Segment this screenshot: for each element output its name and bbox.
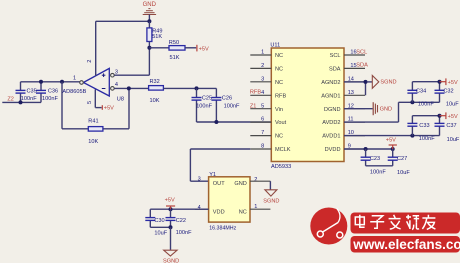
svg-text:3: 3 xyxy=(198,177,201,183)
svg-text:AVDD2: AVDD2 xyxy=(322,120,340,126)
svg-text:C32: C32 xyxy=(443,89,453,95)
svg-text:100nF: 100nF xyxy=(370,169,386,175)
svg-text:1: 1 xyxy=(73,76,76,82)
svg-text:8: 8 xyxy=(261,144,264,150)
svg-text:C27: C27 xyxy=(397,156,407,162)
svg-text:GND: GND xyxy=(380,107,392,113)
svg-text:SDA: SDA xyxy=(356,63,368,69)
svg-text:100nF: 100nF xyxy=(42,96,58,102)
svg-text:GND: GND xyxy=(143,2,157,8)
svg-text:C23: C23 xyxy=(370,156,380,162)
svg-text:100nF: 100nF xyxy=(196,103,212,109)
svg-text:+5V: +5V xyxy=(165,198,175,204)
svg-text:16.384MHz: 16.384MHz xyxy=(209,226,236,232)
svg-text:C36: C36 xyxy=(48,88,58,94)
svg-text:4: 4 xyxy=(198,205,201,211)
svg-text:4: 4 xyxy=(261,90,264,96)
svg-text:NC: NC xyxy=(275,53,283,59)
svg-text:10K: 10K xyxy=(88,139,98,145)
svg-text:51K: 51K xyxy=(152,34,162,40)
svg-text:3: 3 xyxy=(261,76,264,82)
svg-text:SGND: SGND xyxy=(380,80,396,86)
svg-text:NC: NC xyxy=(275,80,283,86)
svg-text:2: 2 xyxy=(254,177,257,183)
svg-text:U8: U8 xyxy=(117,97,124,103)
svg-text:C26: C26 xyxy=(222,95,232,101)
svg-text:2: 2 xyxy=(87,60,93,63)
svg-text:7: 7 xyxy=(261,130,264,136)
svg-text:C30: C30 xyxy=(154,218,164,224)
svg-text:R50: R50 xyxy=(169,40,179,46)
svg-text:100nF: 100nF xyxy=(418,101,434,107)
svg-text:VDD: VDD xyxy=(213,209,225,215)
svg-text:100nF: 100nF xyxy=(21,96,37,102)
svg-text:2: 2 xyxy=(261,63,264,69)
svg-text:AD5933: AD5933 xyxy=(271,164,291,170)
svg-text:NC: NC xyxy=(239,209,247,215)
svg-text:NC: NC xyxy=(275,134,283,140)
svg-text:100nF: 100nF xyxy=(224,103,240,109)
svg-text:U11: U11 xyxy=(270,42,280,48)
svg-text:10uF: 10uF xyxy=(154,231,167,237)
svg-text:+5V: +5V xyxy=(199,46,209,52)
svg-text:100nF: 100nF xyxy=(176,230,192,236)
svg-text:10uF: 10uF xyxy=(397,170,410,176)
svg-text:SCL: SCL xyxy=(330,53,341,59)
svg-text:NC: NC xyxy=(275,67,283,73)
svg-text:10uF: 10uF xyxy=(447,137,460,143)
svg-text:C25: C25 xyxy=(202,95,212,101)
svg-text:DVDD: DVDD xyxy=(325,147,341,153)
svg-text:R32: R32 xyxy=(150,79,160,85)
svg-text:+5V: +5V xyxy=(104,106,114,112)
svg-text:Y1: Y1 xyxy=(209,172,216,178)
svg-text:100nF: 100nF xyxy=(419,136,435,142)
svg-text:MCLK: MCLK xyxy=(275,147,291,153)
svg-text:SDA: SDA xyxy=(329,67,341,73)
svg-text:4: 4 xyxy=(115,82,118,88)
svg-text:13: 13 xyxy=(348,90,354,96)
svg-text:C33: C33 xyxy=(419,123,429,129)
svg-text:C37: C37 xyxy=(446,123,456,129)
svg-text:RFB: RFB xyxy=(250,89,261,95)
svg-text:SGND: SGND xyxy=(163,258,179,263)
svg-text:C34: C34 xyxy=(416,89,426,95)
svg-text:Z1: Z1 xyxy=(250,104,257,110)
svg-text:+5V: +5V xyxy=(448,114,458,120)
svg-text:AD8605B: AD8605B xyxy=(62,89,86,95)
svg-text:1: 1 xyxy=(261,50,264,56)
svg-text:+5V: +5V xyxy=(448,80,458,86)
svg-text:OUT: OUT xyxy=(213,181,225,187)
svg-text:Vout: Vout xyxy=(275,120,287,126)
svg-text:AGND1: AGND1 xyxy=(321,93,340,99)
svg-text:SGND: SGND xyxy=(263,199,279,205)
svg-text:GND: GND xyxy=(234,181,246,187)
svg-text:10K: 10K xyxy=(150,98,160,104)
svg-text:6: 6 xyxy=(261,117,264,123)
svg-text:5: 5 xyxy=(261,103,264,109)
svg-text:AVDD1: AVDD1 xyxy=(322,134,340,140)
svg-text:10uF: 10uF xyxy=(446,102,459,108)
svg-text:RFB: RFB xyxy=(275,93,286,99)
svg-text:Z2: Z2 xyxy=(7,97,14,103)
svg-text:C22: C22 xyxy=(176,218,186,224)
svg-text:R41: R41 xyxy=(88,119,98,125)
svg-text:51K: 51K xyxy=(170,55,180,61)
svg-text:C35: C35 xyxy=(27,88,37,94)
svg-text:+5V: +5V xyxy=(386,137,396,143)
svg-text:5: 5 xyxy=(87,101,93,104)
svg-text:AGND2: AGND2 xyxy=(321,80,340,86)
svg-text:DGND: DGND xyxy=(324,107,340,113)
svg-text:Vin: Vin xyxy=(275,107,283,113)
svg-text:www.elecfans.com: www.elecfans.com xyxy=(352,237,460,252)
svg-text:SCL: SCL xyxy=(356,49,367,55)
